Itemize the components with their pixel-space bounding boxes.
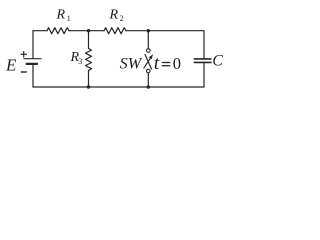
resistor R1 bbox=[47, 28, 69, 34]
switch SW actuation arrow bbox=[144, 57, 152, 68]
wire R3 branch top lead bbox=[88, 31, 90, 49]
switch SW arrowhead bbox=[149, 54, 153, 59]
svg-text:R: R bbox=[109, 8, 119, 23]
svg-text:R: R bbox=[56, 8, 66, 23]
switch SW top contact circle bbox=[147, 49, 151, 53]
svg-text:1: 1 bbox=[67, 14, 71, 23]
resistor R2 bbox=[104, 28, 126, 34]
svg-text:0: 0 bbox=[173, 54, 181, 73]
wire R3 branch bottom lead bbox=[88, 71, 90, 88]
svg-text:3: 3 bbox=[78, 57, 82, 66]
capacitor C plates bbox=[194, 59, 211, 63]
svg-text:SW: SW bbox=[120, 55, 143, 73]
wire right side lower bbox=[203, 63, 205, 87]
wire bottom rail bbox=[33, 86, 204, 88]
wire right side upper (to capacitor) bbox=[203, 31, 205, 58]
wire top rail left segment bbox=[33, 30, 47, 32]
wire top rail right segment bbox=[126, 30, 204, 32]
switch SW blade bbox=[145, 55, 152, 70]
battery minus sign bbox=[21, 71, 27, 73]
wire switch branch top lead bbox=[147, 31, 149, 49]
node dot top R3 junction bbox=[87, 29, 90, 32]
wire left side upper bbox=[32, 31, 34, 58]
resistor R3 bbox=[86, 49, 92, 71]
battery E plates bbox=[24, 58, 41, 60]
node dot bottom R3 junction bbox=[87, 85, 90, 88]
switch SW bottom contact circle bbox=[147, 69, 151, 73]
battery plus sign bbox=[21, 51, 27, 57]
wire left side lower bbox=[32, 65, 34, 88]
svg-text:2: 2 bbox=[120, 14, 124, 23]
node dot top switch junction bbox=[147, 29, 150, 32]
wire switch branch bottom lead bbox=[147, 73, 149, 87]
node dot bottom switch junction bbox=[147, 85, 150, 88]
svg-text:C: C bbox=[212, 52, 223, 69]
svg-text:E: E bbox=[5, 55, 17, 74]
wire top rail between R1 and R2 bbox=[69, 30, 104, 32]
svg-text:t: t bbox=[154, 53, 160, 74]
